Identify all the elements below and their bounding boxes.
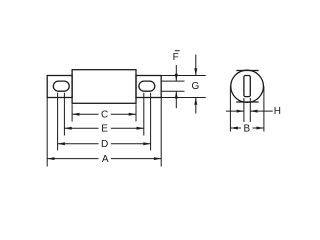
extension line D right	[150, 93, 152, 151]
dimension B	[231, 127, 264, 130]
slot bottom extension to right	[161, 90, 184, 92]
left slot hole	[53, 81, 69, 91]
dimension F arrows	[175, 65, 178, 108]
svg-text:H: H	[274, 106, 281, 117]
svg-text:D: D	[101, 139, 108, 150]
fuse body (side view)	[72, 70, 136, 104]
B right extension	[263, 86, 265, 131]
extension line C right	[135, 104, 137, 121]
dimension D line	[58, 142, 151, 145]
right mounting pad	[136, 76, 161, 98]
extension line A right	[160, 98, 162, 167]
dimension E line	[64, 127, 143, 130]
svg-text:E: E	[101, 124, 108, 135]
left mounting pad	[47, 76, 72, 98]
extension line E right	[143, 93, 145, 136]
dimension C line	[72, 113, 136, 116]
svg-text:G: G	[192, 81, 200, 92]
slot left extension down	[243, 98, 245, 122]
top chord	[236, 70, 258, 72]
slot top extension to right	[161, 80, 184, 82]
extension line C left	[71, 104, 73, 121]
pad bottom extension to right	[161, 97, 206, 99]
ferrule circle (end view)	[231, 70, 264, 102]
F tick	[175, 50, 180, 52]
dimension H	[226, 110, 273, 113]
B left extension	[229, 86, 231, 131]
extension line D left	[57, 93, 59, 151]
pad top extension to right	[161, 75, 206, 77]
dimension G arrows	[194, 55, 197, 114]
svg-text:F: F	[173, 52, 179, 63]
dimension A line	[47, 157, 161, 160]
screw slot	[244, 76, 250, 97]
extension line A left	[46, 98, 48, 167]
svg-text:A: A	[102, 154, 109, 165]
bottom chord	[236, 101, 258, 103]
svg-text:C: C	[101, 110, 108, 121]
slot right extension down	[249, 98, 251, 122]
svg-text:B: B	[243, 123, 250, 134]
right slot hole	[139, 81, 155, 91]
extension line E left	[63, 93, 65, 136]
